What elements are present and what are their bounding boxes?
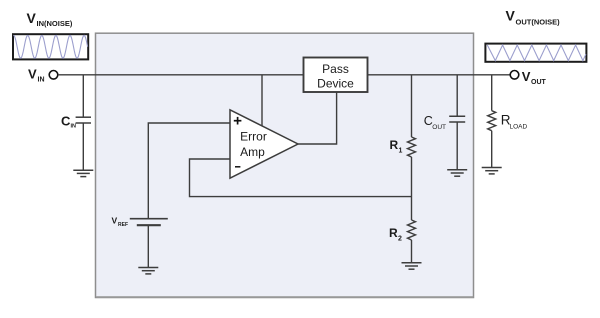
svg-text:OUT(NOISE): OUT(NOISE) [516, 18, 561, 27]
label VOUT [522, 69, 547, 86]
svg-text:2: 2 [398, 236, 402, 243]
svg-text:R: R [390, 138, 399, 152]
wire COUT upper [456, 75, 458, 117]
wire input rail [58, 74, 304, 76]
wire battery to ground [147, 225, 149, 267]
svg-text:C: C [61, 113, 71, 128]
label CIN [61, 113, 76, 129]
svg-text:IN: IN [38, 76, 45, 83]
resistor R2 [408, 220, 416, 240]
label COUT [424, 114, 446, 131]
svg-text:REF: REF [118, 222, 128, 228]
op-amp minus sign [235, 166, 240, 168]
label VIN [28, 66, 45, 83]
svg-text:V: V [27, 10, 37, 26]
svg-text:R: R [389, 226, 398, 240]
wire CIN lower [82, 123, 84, 170]
label Error Amp [240, 130, 267, 159]
wire R1 to R2 [411, 157, 413, 220]
label Pass Device [317, 62, 354, 90]
ground VREF [138, 268, 158, 274]
svg-text:OUT: OUT [432, 124, 446, 131]
terminal VOUT [510, 71, 519, 80]
wire R1 upper [411, 75, 413, 137]
ground COUT [447, 170, 467, 176]
svg-text:Pass: Pass [322, 62, 349, 76]
op-amp plus sign [234, 117, 242, 125]
svg-text:IN(NOISE): IN(NOISE) [37, 19, 73, 28]
node feedback junction [411, 196, 413, 198]
wire COUT lower [456, 122, 458, 170]
wire minus input feedback [190, 159, 412, 197]
regulator block outline [96, 33, 474, 298]
input noise box [13, 34, 88, 59]
wire RLOAD lower [491, 131, 493, 168]
pass device box [304, 58, 368, 93]
label VREF [112, 216, 129, 229]
label R1 [390, 138, 403, 155]
op-amp U1 error amplifier [230, 110, 298, 178]
svg-text:Device: Device [317, 76, 354, 90]
svg-text:V: V [28, 66, 37, 81]
resistor RLOAD [488, 111, 496, 131]
output noise box [485, 44, 586, 62]
capacitor CIN [76, 117, 91, 123]
label VIN(NOISE) [27, 10, 73, 28]
label RLOAD [501, 112, 528, 130]
output noise triangle wave [487, 45, 586, 61]
svg-text:OUT: OUT [531, 79, 547, 86]
terminal VIN [49, 71, 58, 80]
label VOUT(NOISE) [506, 8, 561, 27]
svg-text:IN: IN [71, 123, 77, 129]
svg-text:Amp: Amp [240, 145, 265, 159]
wire RLOAD upper [491, 75, 493, 111]
wire plus input [148, 123, 230, 218]
wire R2 lower [411, 240, 413, 263]
svg-text:LOAD: LOAD [510, 124, 528, 131]
wire output rail [368, 74, 511, 76]
svg-text:1: 1 [399, 148, 403, 155]
resistor R1 [408, 137, 416, 157]
svg-text:V: V [506, 8, 516, 24]
battery VREF [130, 219, 168, 226]
svg-text:V: V [522, 69, 531, 84]
ground RLOAD [482, 168, 502, 174]
svg-text:V: V [112, 216, 118, 226]
wire amp output [298, 92, 337, 144]
ground R2 [402, 263, 422, 269]
capacitor COUT [449, 116, 465, 122]
input noise sine wave [13, 35, 87, 58]
ground CIN [73, 170, 93, 176]
label R2 [389, 226, 402, 243]
wire CIN upper [82, 75, 84, 117]
svg-text:Error: Error [240, 130, 267, 144]
wire amp supply [261, 75, 263, 127]
